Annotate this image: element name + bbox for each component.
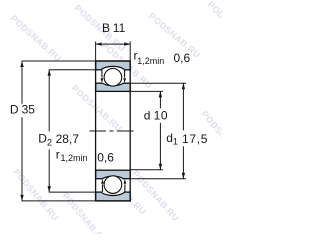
dimension D2 extension lines (49, 69, 96, 71)
dimension d1 line with arrows (182, 83, 185, 179)
svg-text:10: 10 (154, 108, 169, 122)
svg-text:d: d (144, 108, 151, 122)
svg-text:PODSNAB.RU: PODSNAB.RU (206, 0, 222, 52)
svg-text:0,6: 0,6 (174, 51, 191, 65)
outer ring bottom section (96, 192, 131, 201)
dimension d extension lines (130, 90, 163, 92)
inner ring bottom raceway groove (101, 176, 126, 187)
bearing silhouette outline (96, 61, 131, 201)
dimension D2 line with arrows (48, 70, 51, 192)
svg-text:D: D (10, 103, 19, 117)
svg-text:B: B (102, 21, 110, 35)
r leader top-left (101, 70, 104, 83)
r leader top-right (123, 70, 126, 83)
svg-text:d1: d1 (166, 131, 178, 147)
inner ring top raceway groove (101, 75, 126, 86)
svg-text:0,6: 0,6 (97, 151, 114, 165)
outer ring top raceway groove (101, 66, 126, 76)
dimension B line with arrows (96, 42, 131, 45)
r leader bottom-left (101, 179, 104, 192)
ball bottom (104, 176, 122, 194)
svg-text:11: 11 (113, 21, 126, 35)
dimension B extension lines (95, 42, 97, 62)
svg-text:PODSNAB.RU: PODSNAB.RU (11, 167, 60, 223)
svg-text:1,2min: 1,2min (137, 56, 164, 66)
svg-text:r: r (56, 147, 60, 161)
outer ring bottom raceway groove (101, 185, 126, 195)
svg-text:D228,7: D228,7 (38, 132, 79, 148)
outer ring top section (96, 61, 131, 70)
svg-text:35: 35 (22, 103, 36, 117)
inner ring bottom section (96, 170, 131, 179)
svg-text:PODSNAB.RU: PODSNAB.RU (9, 13, 64, 64)
ball top (104, 69, 122, 87)
svg-text:1,2min: 1,2min (61, 153, 88, 163)
svg-text:PODSNAB.RU: PODSNAB.RU (131, 169, 182, 224)
r leader bottom-right (124, 179, 127, 192)
dimension D line with arrows (20, 61, 23, 201)
dimension d line with arrows (159, 91, 162, 169)
dimension d1 extension lines (130, 82, 186, 84)
inner ring top section (96, 83, 131, 91)
centerline axis (90, 130, 136, 132)
dimension D extension lines (22, 60, 96, 62)
svg-text:17,5: 17,5 (182, 132, 208, 146)
